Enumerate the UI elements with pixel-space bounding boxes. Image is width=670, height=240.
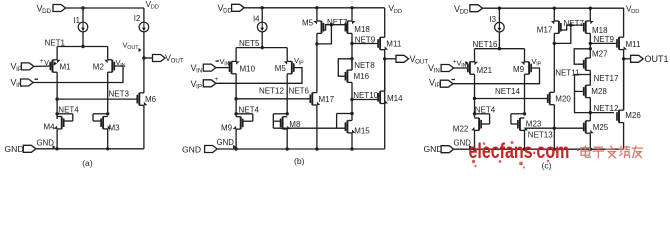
svg-text:+: + (40, 58, 44, 65)
svg-text:GND: GND (424, 144, 443, 154)
svg-text:M16: M16 (354, 72, 370, 81)
svg-text:M9: M9 (513, 65, 525, 74)
svg-text:M9: M9 (221, 124, 233, 133)
svg-text:IN: IN (434, 68, 440, 75)
svg-text:IP: IP (196, 84, 202, 91)
svg-text:IP: IP (435, 82, 441, 89)
svg-text:+: + (215, 76, 219, 83)
svg-text:NET4: NET4 (475, 105, 496, 114)
svg-text:NET6: NET6 (289, 86, 310, 95)
svg-text:GND: GND (37, 138, 55, 147)
svg-text:M17: M17 (537, 25, 553, 34)
svg-text:M25: M25 (593, 123, 609, 132)
svg-text:IN: IN (196, 68, 202, 75)
svg-text:M26: M26 (625, 111, 641, 120)
svg-text:M1: M1 (60, 62, 72, 71)
svg-text:M10: M10 (240, 65, 256, 74)
svg-text:DD: DD (460, 8, 469, 15)
svg-text:NET11: NET11 (555, 68, 580, 77)
svg-text:NET12: NET12 (259, 86, 284, 95)
svg-text:I4: I4 (253, 15, 260, 24)
svg-text:I3: I3 (490, 15, 497, 24)
svg-text:M4: M4 (44, 123, 56, 132)
svg-text:M11: M11 (626, 40, 642, 49)
svg-text:NET10: NET10 (353, 91, 378, 100)
svg-text:M22: M22 (453, 125, 469, 134)
svg-text:NET13: NET13 (528, 130, 553, 139)
svg-text:M18: M18 (592, 26, 608, 35)
svg-text:NET4: NET4 (58, 105, 79, 114)
svg-text:M5: M5 (275, 64, 287, 73)
svg-text:DD: DD (42, 8, 51, 15)
svg-text:I1: I1 (74, 16, 81, 25)
svg-text:NET8: NET8 (354, 61, 375, 70)
svg-text:M17: M17 (319, 95, 335, 104)
svg-text:DD: DD (151, 5, 159, 11)
svg-text:M28: M28 (591, 87, 607, 96)
svg-text:M2: M2 (93, 62, 105, 71)
svg-text:OUT1: OUT1 (645, 54, 669, 64)
svg-text:GND: GND (5, 144, 24, 154)
svg-text:(a): (a) (82, 158, 93, 168)
svg-text:M18: M18 (354, 25, 370, 34)
svg-text:IP: IP (536, 62, 541, 68)
svg-text:M11: M11 (386, 39, 402, 48)
svg-text:GND: GND (217, 138, 235, 147)
svg-text:M14: M14 (387, 94, 403, 103)
svg-text:I2: I2 (134, 14, 141, 23)
svg-text:OUT: OUT (171, 58, 184, 65)
svg-text:DD: DD (631, 9, 639, 15)
svg-text:NET4: NET4 (239, 105, 260, 114)
svg-text:IP: IP (299, 61, 304, 67)
svg-text:M8: M8 (289, 120, 301, 129)
svg-text:OUT: OUT (415, 58, 428, 65)
svg-text:M6: M6 (145, 95, 157, 104)
svg-text:M15: M15 (354, 126, 370, 135)
svg-text:NET14: NET14 (495, 87, 520, 96)
svg-text:DD: DD (394, 9, 402, 15)
svg-text:OUT: OUT (127, 45, 139, 51)
svg-text:M20: M20 (555, 95, 571, 104)
svg-text:IP: IP (49, 63, 54, 69)
svg-text:NET3: NET3 (109, 89, 130, 98)
svg-text:GND: GND (182, 144, 201, 154)
svg-text:M3: M3 (109, 124, 121, 133)
svg-text:NET16: NET16 (473, 40, 498, 49)
svg-text:(b): (b) (294, 156, 305, 166)
svg-text:NET12: NET12 (594, 104, 619, 113)
svg-text:IN: IN (120, 63, 125, 69)
svg-text:NET5: NET5 (239, 39, 260, 48)
svg-text:M5: M5 (302, 18, 314, 27)
svg-text:NET17: NET17 (594, 74, 619, 83)
svg-text:M21: M21 (477, 66, 493, 75)
svg-text:M23: M23 (526, 119, 542, 128)
svg-text:M27: M27 (592, 50, 608, 59)
